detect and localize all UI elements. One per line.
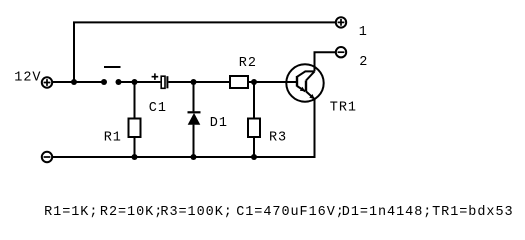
svg-text:D1=1n4148;: D1=1n4148;: [342, 205, 433, 220]
cathode bar: [188, 111, 201, 113]
polarity plus sign: [152, 73, 159, 80]
svg-text:1: 1: [359, 25, 368, 40]
resistor R2: [230, 76, 248, 88]
svg-text:R1: R1: [104, 130, 122, 145]
terminal (-) bottom left: [42, 152, 52, 162]
wire R1 bottom lead: [134, 137, 136, 157]
wire R2 to transistor base: [248, 81, 297, 83]
wire R3 bottom lead: [253, 137, 255, 157]
junction node R3 top: [251, 79, 257, 85]
switch right contact: [116, 79, 122, 85]
collector lead of first stage: [297, 71, 315, 76]
svg-text:R3: R3: [269, 130, 287, 145]
switch left contact: [101, 79, 107, 85]
wire D1 bottom lead: [193, 125, 195, 157]
wire bottom rail and emitter lead: [53, 99, 315, 157]
svg-text:R2: R2: [239, 56, 257, 71]
svg-text:12V: 12V: [14, 71, 41, 86]
resistor R3: [248, 119, 260, 138]
transistor body circle: [286, 64, 323, 101]
wire D1 top lead: [193, 82, 195, 111]
emitter of second stage: [306, 91, 315, 99]
diode D1: [188, 112, 201, 124]
svg-text:C1: C1: [149, 101, 167, 116]
positive plate (hollow): [161, 76, 165, 88]
switch S1: [101, 67, 122, 85]
svg-text:R1=1K;: R1=1K;: [44, 205, 98, 220]
svg-text:D1: D1: [210, 116, 228, 131]
anode triangle: [188, 113, 201, 125]
negative plate: [166, 76, 168, 88]
junction node R1 bottom: [132, 154, 138, 160]
svg-text:2: 2: [359, 55, 368, 70]
svg-text:C1=470uF16V;: C1=470uF16V;: [236, 205, 345, 220]
svg-text:TR1: TR1: [330, 101, 357, 116]
switch actuator bar: [104, 66, 121, 68]
resistor R1: [129, 119, 141, 138]
terminal 12V (+): [42, 77, 52, 87]
collector lead of second stage: [306, 71, 315, 80]
wire collector to terminal 2: [315, 52, 336, 71]
junction node D1 top: [191, 79, 197, 85]
terminal 1 (+) output: [336, 17, 346, 27]
base bar of first darlington stage: [296, 76, 298, 87]
svg-text:R2=10K;: R2=10K;: [100, 205, 163, 220]
wire R3 top lead: [253, 82, 255, 119]
junction node R3 bottom: [251, 154, 257, 160]
wire 12V terminal to switch: [53, 81, 104, 83]
wire switch to capacitor: [119, 81, 161, 83]
transistor TR1 darlington: [286, 64, 323, 101]
wire capacitor to R2: [168, 81, 230, 83]
junction node D1 bottom: [191, 154, 197, 160]
svg-text:R3=100K;: R3=100K;: [160, 205, 232, 220]
emitter of first stage: [297, 86, 305, 91]
junction node at 12V feed: [71, 79, 77, 85]
capacitor C1: [152, 73, 168, 88]
terminal 2 (-) output: [336, 47, 346, 57]
wire top rail from 12V junction to terminal 1: [74, 22, 335, 83]
svg-text:TR1=bdx53: TR1=bdx53: [432, 205, 513, 220]
junction node R1 top: [132, 79, 138, 85]
base bar of second darlington stage: [305, 81, 307, 92]
wire R1 top lead: [134, 82, 136, 119]
